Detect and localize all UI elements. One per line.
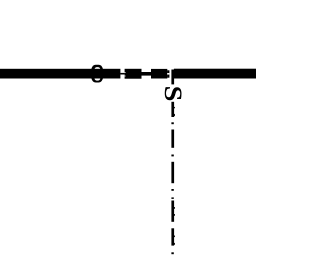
centerline: dash e <box>171 228 174 245</box>
centerline: dot a <box>171 122 173 124</box>
svg-text:S: S <box>159 86 187 102</box>
wire: left thick bar <box>0 69 120 79</box>
wire: thin connector 1 <box>120 73 124 75</box>
centerline: dash a <box>171 102 174 117</box>
centerline: dot d <box>171 197 173 199</box>
node: section line head (vertical stub through bar) <box>171 70 174 85</box>
wire: thin connector 3 (notched) <box>167 70 169 77</box>
centerline: dot e <box>171 252 173 254</box>
wire: thick dash 2 <box>151 69 167 79</box>
centerline: dash b <box>171 130 174 148</box>
centerline: dash d <box>171 201 174 222</box>
centerline: dot c <box>171 189 173 191</box>
wire: thick dash 1 <box>125 69 142 79</box>
centerline: dot b <box>171 155 173 157</box>
wire: right thick bar <box>174 69 256 79</box>
wire: thin connector 2 <box>141 72 151 76</box>
centerline: dash c <box>171 162 174 183</box>
ring / hole symbol on the line <box>91 65 103 83</box>
